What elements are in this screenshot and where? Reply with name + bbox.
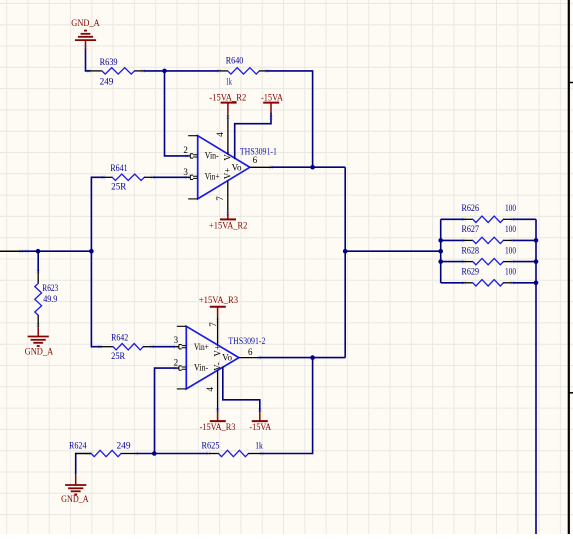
- junction U1 out / R640 feedback: [310, 165, 315, 170]
- svg-text:R639: R639: [100, 57, 118, 67]
- power port GND_A (middle left): [25, 328, 54, 357]
- svg-text:Vin-: Vin-: [205, 151, 219, 161]
- svg-text:GND_A: GND_A: [71, 18, 100, 28]
- junction left bus row3: [438, 259, 443, 264]
- wire R640 feedback to U1 output: [267, 71, 313, 167]
- wire U2 output to bus: [259, 357, 345, 359]
- svg-text:R627: R627: [462, 224, 480, 234]
- resistor R641 25R: [103, 163, 153, 192]
- svg-text:R623: R623: [42, 283, 58, 293]
- resistor R628 100: [441, 245, 536, 264]
- svg-text:-15VA_R2: -15VA_R2: [209, 92, 246, 102]
- resistor R640 1k: [219, 56, 267, 87]
- resistor R639 249: [89, 57, 144, 86]
- wire GND to R624: [75, 454, 77, 474]
- wire ladder feed: [345, 250, 441, 252]
- svg-text:GND_A: GND_A: [25, 347, 54, 357]
- wire input net: [22, 250, 91, 252]
- svg-text:6: 6: [248, 347, 253, 357]
- junction input/R641-R642 tee: [89, 249, 94, 254]
- svg-text:R625: R625: [202, 441, 220, 451]
- svg-text:100: 100: [505, 224, 516, 234]
- op-amp U1 THS3091-1: [188, 136, 250, 199]
- wire U1 output to bus: [271, 166, 345, 168]
- svg-text:249: 249: [100, 76, 114, 86]
- svg-text:R628: R628: [462, 245, 480, 255]
- junction at R639/R640/pin2 tee: [162, 69, 167, 74]
- power port -15VA_R3: [200, 408, 236, 432]
- power port GND_A (top left): [71, 18, 100, 51]
- svg-text:R626: R626: [462, 203, 480, 213]
- wire -15VA to U1 V- region: [235, 114, 271, 159]
- svg-text:Vo: Vo: [232, 162, 242, 172]
- svg-text:3: 3: [183, 167, 188, 177]
- wire ladder left bus: [440, 219, 442, 282]
- svg-text:V+: V+: [213, 345, 223, 357]
- svg-text:100: 100: [505, 245, 516, 255]
- resistor R623 49.9 (to ground): [35, 251, 59, 328]
- U2 pin 4 (V-) bottom supply pin: [205, 362, 223, 408]
- power port -15VA_R2: [209, 92, 246, 114]
- U1 pin 7 (V+) bottom supply pin: [215, 168, 233, 211]
- svg-text:R640: R640: [226, 56, 244, 66]
- junction right bus row2: [534, 238, 539, 243]
- svg-text:249: 249: [117, 441, 132, 451]
- wire input lead (off-sheet pin): [0, 250, 22, 252]
- svg-text:1k: 1k: [226, 77, 232, 87]
- svg-text:3: 3: [174, 335, 179, 345]
- svg-text:25R: 25R: [111, 351, 125, 361]
- pin stub lower: [569, 392, 573, 394]
- svg-text:R624: R624: [69, 441, 87, 451]
- svg-text:100: 100: [505, 203, 516, 213]
- U2 pin 2 (Vin-): [174, 358, 208, 373]
- junction right bus row3: [534, 259, 539, 264]
- power port +15VA_R2: [209, 211, 247, 231]
- wire R642 to U2 pin 3: [152, 346, 176, 348]
- junction U2 out / R625 feedback: [310, 355, 315, 360]
- svg-text:R641: R641: [110, 163, 127, 173]
- svg-text:1k: 1k: [255, 441, 263, 451]
- resistor R624 249: [69, 441, 136, 457]
- power port +15VA_R3: [199, 295, 239, 317]
- resistor R629 100: [441, 267, 536, 286]
- pin stub upper: [569, 82, 573, 84]
- svg-text:V-: V-: [213, 362, 223, 371]
- svg-text:+15VA_R2: +15VA_R2: [209, 221, 247, 231]
- svg-text:THS3091-1: THS3091-1: [240, 146, 277, 156]
- svg-text:6: 6: [253, 155, 258, 165]
- junction R624/R625/pin2 tee: [152, 451, 157, 456]
- wire ladder right bus: [535, 219, 537, 534]
- junction left bus feed: [438, 249, 443, 254]
- U1 pin 2 (Vin-): [183, 145, 218, 160]
- svg-text:-15VA: -15VA: [261, 92, 283, 102]
- svg-text:25R: 25R: [111, 182, 126, 192]
- U2 pin 3 (Vin+): [174, 335, 209, 352]
- svg-text:THS3091-2: THS3091-2: [228, 336, 265, 346]
- junction right bus row4: [534, 281, 539, 286]
- wire R625 feedback to U2 output: [262, 358, 313, 454]
- svg-text:100: 100: [505, 267, 516, 277]
- svg-text:V-: V-: [222, 152, 232, 161]
- svg-text:+15VA_R3: +15VA_R3: [199, 295, 239, 305]
- power port GND_A (bottom): [61, 473, 89, 504]
- svg-text:2: 2: [174, 358, 179, 368]
- svg-text:4: 4: [215, 132, 225, 137]
- U2 pin 7 (V+) top supply pin: [208, 317, 223, 357]
- wire U2 V- region to -15VA: [223, 367, 260, 410]
- wire U2 pin 2 to R624/R625 junction: [155, 368, 176, 453]
- wire junction down to op-amp U1 pin 2: [165, 71, 188, 156]
- svg-text:Vin+: Vin+: [205, 172, 220, 182]
- power port -15VA (bottom): [249, 411, 271, 432]
- wire R639 to R640: [143, 70, 219, 72]
- svg-text:4: 4: [205, 387, 215, 392]
- junction input/R623: [36, 249, 41, 254]
- svg-text:R629: R629: [462, 267, 480, 277]
- svg-text:Vin+: Vin+: [194, 342, 209, 352]
- svg-text:7: 7: [208, 322, 218, 327]
- wire tee down to R642: [91, 251, 100, 347]
- svg-text:R642: R642: [111, 333, 128, 343]
- wire R641 to U1 pin 3: [153, 176, 187, 178]
- svg-text:Vo: Vo: [222, 353, 232, 363]
- U2 pin 6 (Vo) output: [222, 347, 259, 362]
- wire from GND_A to R639: [86, 51, 90, 71]
- svg-text:2: 2: [183, 145, 188, 155]
- svg-text:49.9: 49.9: [43, 294, 58, 304]
- resistor R642 25R: [100, 333, 152, 361]
- junction bus / ladder feed: [343, 249, 348, 254]
- power port -15VA (top): [261, 92, 283, 113]
- U1 pin 6 (Vo) output: [232, 155, 271, 173]
- svg-text:-15VA: -15VA: [249, 422, 271, 432]
- wire R624 to R625: [136, 453, 208, 455]
- svg-text:-15VA_R3: -15VA_R3: [200, 422, 236, 432]
- resistor R626 100: [441, 203, 536, 222]
- wire tee up to R641: [91, 177, 103, 251]
- component edge (off-sheet part body): [568, 0, 570, 534]
- op-amp U2 THS3091-2: [177, 326, 239, 389]
- resistor R627 100: [441, 224, 536, 243]
- junction left bus row2: [438, 238, 443, 243]
- U1 pin 3 (Vin+): [183, 167, 219, 182]
- resistor R625 1k: [202, 441, 264, 457]
- svg-text:GND_A: GND_A: [61, 494, 89, 504]
- svg-text:7: 7: [215, 196, 225, 201]
- wire output bus vertical: [344, 167, 346, 357]
- svg-text:Vin-: Vin-: [194, 363, 208, 373]
- U1 pin 4 (V-) top supply pin: [215, 114, 232, 161]
